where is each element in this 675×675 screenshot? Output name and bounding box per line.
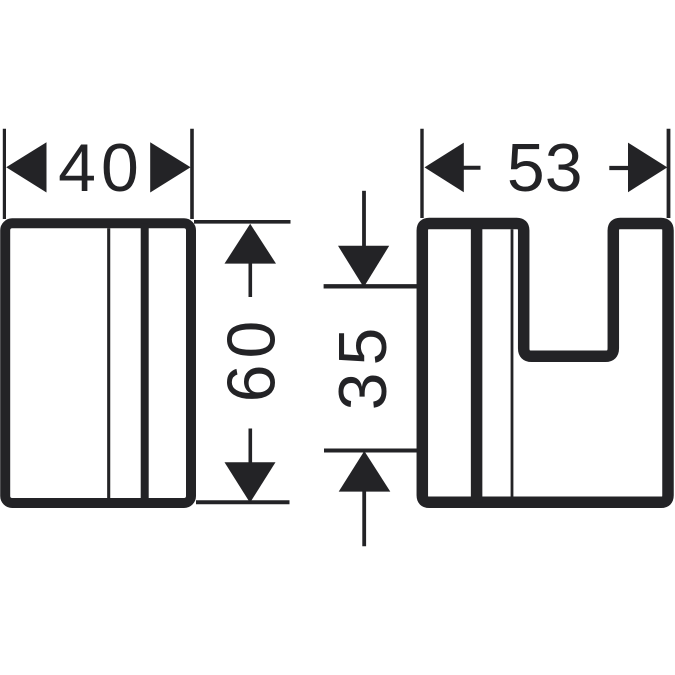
thick inner bar — [471, 224, 483, 503]
arrow right — [150, 142, 190, 192]
arrow tail bottom — [249, 429, 253, 464]
thick inner edge line — [141, 223, 149, 503]
arrow down — [338, 246, 389, 287]
extension line bottom — [324, 449, 421, 453]
extension line bottom — [196, 500, 290, 504]
arrow up — [225, 224, 277, 264]
extension line top — [324, 284, 421, 288]
extension line top — [194, 220, 291, 224]
outer body rounded rect — [5, 223, 191, 503]
arrow tail left — [463, 166, 481, 170]
extension line right — [667, 129, 671, 218]
arrow tail top — [249, 263, 253, 297]
thin inner edge line — [107, 228, 110, 498]
outline with notch — [422, 224, 668, 503]
arrow tail bottom — [362, 492, 366, 547]
arrow tail top — [362, 191, 366, 246]
arrow tail right — [609, 166, 628, 170]
arrow left — [425, 143, 464, 193]
thin inner line — [511, 229, 514, 496]
arrow left — [6, 142, 46, 192]
svg-text:53: 53 — [507, 130, 583, 206]
extension line right — [190, 129, 194, 219]
extension line left — [420, 129, 423, 218]
arrow up — [339, 451, 391, 492]
svg-text:35: 35 — [325, 321, 401, 411]
extension line left — [3, 129, 6, 219]
svg-text:60: 60 — [213, 315, 289, 403]
arrow right — [628, 143, 667, 193]
svg-text:40: 40 — [58, 130, 144, 206]
arrow down — [225, 462, 276, 502]
